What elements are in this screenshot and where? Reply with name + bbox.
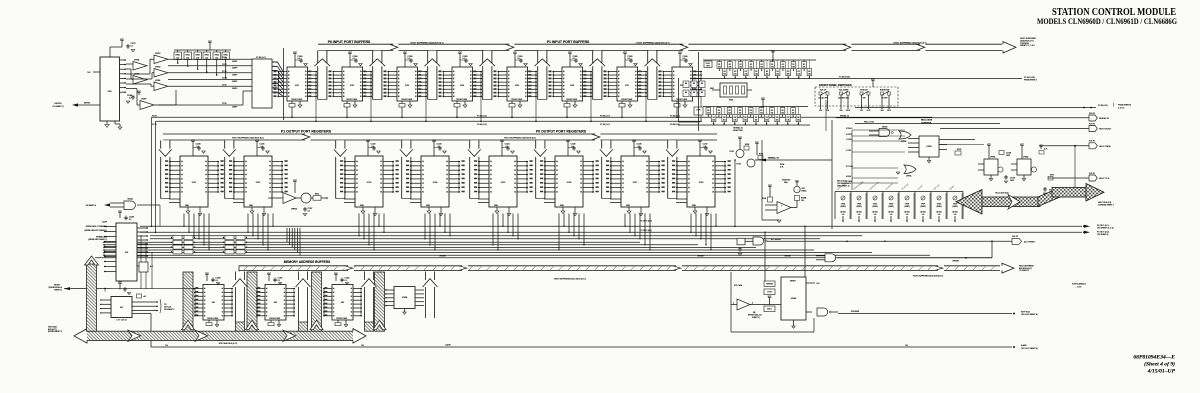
buffer IC U782 input port [404,54,406,57]
connector flag HOST BOOT [1089,126,1097,132]
svg-text:(Sheet 4 of 9): (Sheet 4 of 9) [1144,361,1175,368]
svg-text:P0 INPUT PORT BUFFERS: P0 INPUT PORT BUFFERS [328,40,371,44]
crosshatch arrow right [1086,184,1104,202]
buffer IC U787 input port [679,54,681,57]
cap C1190 [119,213,121,216]
svg-text:HDLC DATA: HDLC DATA [1099,145,1111,148]
bus: P1/P0 OUTPUT PORT REGISTERS data bus [163,134,717,140]
svg-text:U31: U31 [120,307,123,309]
svg-text:0.1: 0.1 [572,146,574,148]
svg-text:100PF: 100PF [232,81,237,83]
wires to flags [940,128,1089,130]
svg-text:U42: U42 [274,302,277,304]
register IC U793 output port [402,140,411,198]
svg-text:TRI DET GND: TRI DET GND [621,99,633,101]
svg-text:0.1: 0.1 [438,146,440,148]
svg-text:1P5: 1P5 [819,110,822,112]
svg-text:U51B4: U51B4 [791,298,796,300]
svg-text:10k: 10k [797,120,800,122]
svg-text:U793: U793 [367,182,372,184]
svg-text:0.1: 0.1 [298,58,300,60]
svg-text:R802: R802 [196,54,200,56]
svg-text:0.1: 0.1 [518,58,520,60]
gate output wtf [817,308,828,316]
svg-text:TRI DET GND: TRI DET GND [566,99,578,101]
svg-text:HOST BUFFERED ADD BUS (0:17): HOST BUFFERED ADD BUS (0:17) [554,278,586,281]
svg-text:SERIAL ID: SERIAL ID [840,115,850,118]
svg-text:CTS4: CTS4 [222,78,227,80]
svg-text:TO/FROM SHEET 2: TO/FROM SHEET 2 [1098,205,1114,207]
svg-text:CONTROL: CONTROL [921,123,932,125]
buffer IC U42 memory address [268,275,270,278]
svg-text:TRI DET GND: TRI DET GND [336,318,348,320]
svg-text:(FROM SHEET 1): (FROM SHEET 1) [48,331,62,333]
svg-text:R794: R794 [759,153,763,155]
resistor R824 [313,196,321,201]
svg-text:ADAPTER: ADAPTER [733,129,743,132]
svg-text:(GRN): (GRN) [888,206,893,208]
svg-text:P.02 P2: P.02 P2 [1012,236,1018,238]
net P0 IN / P1 IN lines [152,116,933,118]
resistor pack array upper [703,59,816,61]
buffer IC U781 input port [349,54,351,57]
bus: HOST BUFFERED DATA BUS (0:7) top [318,44,1002,50]
svg-text:10k: 10k [786,120,789,122]
svg-text:U786A: U786A [402,296,408,299]
net SERIAL ID [755,159,832,161]
LED D62 red [794,186,800,192]
svg-text:P605: P605 [729,100,733,102]
svg-text:TRI DET GND: TRI DET GND [269,318,281,320]
svg-text:P.02 P1: P.02 P1 [1089,173,1095,175]
svg-text:R801: R801 [186,54,190,56]
svg-text:0.1: 0.1 [216,280,218,282]
wire: intermediate out lines [150,235,862,237]
svg-text:(TO U6-70 SHEET 4): (TO U6-70 SHEET 4) [1021,314,1038,316]
svg-text:4, 5 & 6: 4, 5 & 6 [1118,107,1124,109]
svg-text:U782: U782 [350,85,354,87]
svg-text:0.1: 0.1 [353,58,355,60]
connector box (mold switch) [720,83,747,97]
svg-text:U510E: U510E [882,126,888,128]
IC U785 (left latch) [121,41,123,44]
net P2 IN line [855,107,1096,109]
svg-text:U794A: U794A [1023,156,1029,159]
svg-text:10k: 10k [739,66,742,68]
svg-text:10k: 10k [792,112,795,114]
wire A A/W line [150,314,152,348]
svg-text:R824: R824 [315,194,319,196]
svg-text:10PF: 10PF [1006,155,1010,157]
svg-text:1P8: 1P8 [880,110,883,112]
svg-text:R803: R803 [205,54,209,56]
hatched risers left of each buffer IC [183,272,193,331]
cap C1117 [304,207,306,209]
svg-text:3: 3 [733,302,734,304]
svg-text:(TO SHEET 6): (TO SHEET 6) [1097,234,1109,236]
svg-text:FLEPS-49862-O: FLEPS-49862-O [1072,284,1087,286]
svg-text:10k: 10k [766,74,769,76]
svg-text:TRI DET GND: TRI DET GND [401,99,413,101]
svg-text:0.1: 0.1 [278,280,280,282]
gate U796A nand [879,129,890,137]
svg-text:(GRN): (GRN) [840,206,845,208]
svg-text:2-8: 2-8 [842,214,845,216]
gate RESET driver [825,254,836,262]
svg-text:CTS6: CTS6 [222,103,227,105]
bus tap arrow (vertical pipe into top bus) [373,51,382,100]
svg-text:0.1: 0.1 [131,45,133,47]
buffer IC U780 input port [294,54,296,57]
bus tap arrow (vertical pipe into top bus) [318,51,327,100]
svg-text:TO SHEET 3: TO SHEET 3 [1019,270,1029,272]
svg-text:HOST BUFFERED ADD BUS (0:17): HOST BUFFERED ADD BUS (0:17) [913,274,944,277]
svg-text:R8: R8 [701,83,703,85]
svg-text:10k: 10k [781,66,784,68]
svg-text:7 THD.6: 7 THD.6 [846,139,853,141]
svg-text:10k: 10k [760,66,763,68]
net WTF SCK line [838,313,1012,315]
svg-text:N.C.: N.C. [817,283,821,285]
svg-text:10k: 10k [797,74,800,76]
svg-text:GP53: GP53 [291,209,297,211]
svg-text:10k: 10k [776,120,779,122]
svg-text:U30: U30 [125,252,128,254]
svg-text:(GRN): (GRN) [920,206,925,208]
svg-text:100PF: 100PF [232,88,237,90]
svg-text:0.1: 0.1 [308,210,310,212]
transistor Q751 [739,139,741,142]
svg-text:10k: 10k [734,74,737,76]
svg-text:U786C: U786C [155,53,161,55]
svg-text:100PF: 100PF [232,61,237,63]
svg-text:R8: R8 [701,92,703,94]
vertical wire [283,48,285,120]
svg-text:R805: R805 [224,54,228,56]
U30 right pin drops [140,236,142,289]
svg-text:(GRN): (GRN) [936,206,941,208]
svg-text:U791: U791 [192,182,197,184]
svg-text:RESET: RESET [785,255,792,257]
IC U51B [781,277,806,320]
transistor Q752 [756,144,758,147]
svg-text:U783: U783 [405,85,409,87]
P2 input connector box [252,59,272,108]
svg-text:WTF/RES: WTF/RES [851,311,860,313]
svg-text:(FROM U401-G17 SHEET 1): (FROM U401-G17 SHEET 1) [84,230,107,232]
svg-text:0.1: 0.1 [408,58,410,60]
svg-text:LTCH: LTCH [767,291,772,293]
svg-text:1 8 7 14 8 13: 1 8 7 14 8 13 [116,319,126,321]
svg-text:R8: R8 [685,83,687,85]
svg-text:10k: 10k [728,66,731,68]
connector flag HDLC DATA [1089,143,1097,149]
FRONT PANEL SWITCHES dashed box [815,87,898,106]
svg-text:2-8: 2-8 [906,214,909,216]
net P1 IN line [690,78,1022,80]
svg-text:2 PH0.2: 2 PH0.2 [846,128,852,130]
pullup 4.7k [138,295,140,299]
svg-text:4.7k: 4.7k [780,166,783,168]
svg-text:RETND: RETND [84,103,91,105]
svg-text:SHEET 1): SHEET 1) [54,289,62,291]
svg-text:TRI DET GND: TRI DET GND [676,99,688,101]
bus tap arrow (vertical pipe into top bus) [593,51,602,100]
connector flag SERIAL ID [1089,115,1097,121]
IC U31 [119,284,121,287]
svg-text:+4.7: +4.7 [143,296,146,298]
flip-flop latches U793A U794A [988,146,990,149]
svg-text:SERIAL ID: SERIAL ID [733,127,743,130]
svg-text:10k: 10k [765,120,768,122]
crosshatch top band [1052,188,1086,198]
svg-text:R8: R8 [685,92,687,94]
gate ACT RESET small [753,237,764,245]
buffer IC U43 memory address [335,275,337,278]
svg-text:P1 IN (0:23): P1 IN (0:23) [839,77,850,79]
buffer IC U783 input port [459,54,461,57]
svg-text:A A/W: A A/W [1021,344,1027,347]
svg-text:HOST BUFFERED DATA BUS (0:7): HOST BUFFERED DATA BUS (0:7) [232,137,264,140]
svg-text:0.1: 0.1 [573,58,575,60]
net RETND to sheet 1 [72,103,78,106]
svg-text:1P7: 1P7 [860,110,863,112]
svg-text:1P6: 1P6 [839,110,842,112]
vertical bend bundle [286,228,288,242]
svg-text:P.02 P1: P.02 P1 [1089,141,1095,143]
register output drop wires [183,214,185,227]
svg-text:10k: 10k [739,112,742,114]
svg-text:HDLC CLK: HDLC CLK [1099,178,1110,180]
svg-text:MODELS CLN6960D / CLN6961D / C: MODELS CLN6960D / CLN6961D / CLN6686G [1037,16,1177,26]
net RESET long line [95,257,992,259]
svg-text:MEMORY ADDRESS BUFFERS: MEMORY ADDRESS BUFFERS [284,260,330,264]
riser (from sheet) [87,264,97,331]
svg-text:RETND: RETND [55,103,62,105]
svg-text:2-8: 2-8 [890,214,893,216]
gate NOR pair [737,238,745,245]
buffer IC U786 input port [624,54,626,57]
gate U797B or [899,131,911,139]
svg-text:HDLC BUS (0:3): HDLC BUS (0:3) [995,193,1009,195]
svg-text:TRI DET GND: TRI DET GND [346,99,358,101]
svg-text:1 CD5: 1 CD5 [846,150,851,152]
register IC U797 output port [668,140,677,198]
bracket to U117 [160,299,161,313]
svg-text:0.1: 0.1 [129,219,131,221]
svg-text:0.1: 0.1 [463,58,465,60]
svg-text:P1 OUTPUT PORT REGISTERS: P1 OUTPUT PORT REGISTERS [281,129,332,133]
wire bundle from P2 connector to U781 [272,61,278,63]
svg-text:5 THD0: 5 THD0 [846,181,852,183]
crosshatch step diagonal [1038,188,1060,207]
svg-text:RESET: RESET [953,260,960,262]
svg-text:U785: U785 [515,85,519,87]
svg-text:ON SHEET 4: ON SHEET 4 [86,205,96,207]
bus tap arrow (vertical pipe into top bus) [483,51,492,100]
svg-text:(FROM U401-17 SHEET 1): (FROM U401-17 SHEET 1) [86,226,108,228]
svg-text:P0 IN: P0 IN [152,115,157,117]
svg-text:2-8: 2-8 [922,214,925,216]
vertical section divider [698,52,700,131]
svg-text:0.1: 0.1 [628,58,630,60]
svg-text:P2 IN (0:2): P2 IN (0:2) [477,115,487,117]
gate U614A [124,201,135,210]
svg-text:LOCAL SPK: LOCAL SPK [818,97,828,100]
svg-text:10k: 10k [723,120,726,122]
svg-text:1P11: 1P11 [867,110,871,112]
svg-text:0.1: 0.1 [704,146,706,148]
svg-text:68P81094E34—E: 68P81094E34—E [1133,355,1175,361]
svg-text:SHEET 1): SHEET 1) [752,317,760,319]
svg-text:CTS3: CTS3 [222,71,227,73]
transistor Q GP53 [301,193,311,203]
svg-text:P1 IN: P1 IN [152,124,157,126]
svg-text:P1 INPUT PORT BUFFERS: P1 INPUT PORT BUFFERS [547,40,590,44]
svg-text:10k: 10k [733,120,736,122]
op-amp station fail [769,187,771,190]
svg-text:CTS0: CTS0 [222,64,227,66]
svg-text:U793A: U793A [990,156,996,159]
svg-text:(GRN): (GRN) [904,206,909,208]
svg-text:1P9: 1P9 [826,110,829,112]
register IC U791 output port [225,140,234,198]
svg-text:0.1: 0.1 [129,97,131,99]
svg-text:STND-BY: STND-BY [860,90,869,92]
svg-text:10k: 10k [803,66,806,68]
buffer U786F low [140,101,154,110]
svg-text:2-8: 2-8 [858,214,861,216]
svg-text:SERIAL ID: SERIAL ID [768,156,779,159]
svg-text:100PF: 100PF [232,107,237,109]
svg-text:U786A: U786A [134,59,140,62]
svg-text:4/15/01–UP: 4/15/01–UP [1147,369,1176,375]
svg-text:P.02 P1: P.02 P1 [1089,113,1095,115]
resistor pack row top-left [174,49,231,51]
svg-text:(TO SHEETS 4, 5, 6): (TO SHEETS 4, 5, 6) [1097,228,1114,230]
svg-text:A A/W: A A/W [445,343,450,346]
svg-text:10k: 10k [755,74,758,76]
svg-text:10k: 10k [787,74,790,76]
bus D: HOST BUFFERED ADD BUS thin [239,265,1000,267]
bus tap arrow (vertical pipe into top bus) [538,51,547,100]
bus tap arrow (vertical pipe into top bus) [648,51,657,100]
svg-text:U797A: U797A [906,175,912,178]
svg-text:P2 IN (0:2): P2 IN (0:2) [1098,105,1108,107]
svg-text:VOL DOWN: VOL DOWN [839,90,849,92]
bus HDLC BUS (0:3) crosshatched [978,197,1040,207]
svg-text:(GRN): (GRN) [856,206,861,208]
svg-text:10k: 10k [749,112,752,114]
svg-text:R2LD: R2LD [767,308,772,310]
svg-text:0.1: 0.1 [638,146,640,148]
buffer IC U41 memory address [206,275,208,278]
svg-text:HDLC BUS: HDLC BUS [921,120,933,122]
svg-text:N.C.: N.C. [88,72,92,74]
buffer triangles U786 [133,62,147,71]
left control wires + pin labels [852,129,905,131]
svg-text:U798: U798 [699,182,704,184]
svg-text:10k: 10k [712,120,715,122]
svg-text:10k: 10k [776,74,779,76]
svg-text:CTS5: CTS5 [222,84,227,86]
svg-text:U785: U785 [107,91,111,93]
svg-text:INTERCOM: INTERCOM [880,90,890,92]
svg-text:HOST BOOT: HOST BOOT [1099,129,1112,131]
svg-text:TRI DET GND: TRI DET GND [456,99,468,101]
test point connector row [835,191,963,193]
flag ACT RESET [1012,238,1022,244]
svg-text:10k: 10k [717,112,720,114]
svg-text:U786F: U786F [141,99,146,101]
svg-text:4: 4 [752,302,753,304]
svg-text:FRONT PANEL SWITCHES: FRONT PANEL SWITCHES [819,83,852,87]
svg-text:100PF: 100PF [232,68,237,70]
wire: P1 OUT bus line [140,231,1082,233]
svg-text:R8: R8 [693,83,695,85]
svg-text:P0 IN (0:7): P0 IN (0:7) [600,115,610,117]
svg-text:10k: 10k [723,74,726,76]
white pipe arrows right of each buffer IC [235,272,244,323]
svg-text:100PF: 100PF [232,74,237,76]
svg-text:U786: U786 [570,85,574,87]
svg-text:10k: 10k [771,66,774,68]
svg-text:2-8: 2-8 [938,214,941,216]
svg-text:10k: 10k [744,120,747,122]
svg-text:P.02 P1: P.02 P1 [1089,123,1095,125]
gate U797A or [904,165,916,174]
buffer IC U784 input port [514,54,516,57]
svg-text:HOST BUFFERED DATA BUS (0:7): HOST BUFFERED DATA BUS (0:7) [637,41,670,44]
svg-text:0.1: 0.1 [345,280,347,282]
svg-text:TRI DET GND: TRI DET GND [291,99,303,101]
svg-text:P2 IN (0:7): P2 IN (0:7) [256,57,266,59]
svg-text:SHEETS 1, 2 & 4: SHEETS 1, 2 & 4 [1020,45,1035,47]
svg-text:10k: 10k [808,74,811,76]
resistor pack array lower [703,106,808,108]
svg-text:10k: 10k [718,66,721,68]
vertical feeds into box [764,232,766,281]
net HDLC LTCH / SERIAL ID lines [836,117,1089,119]
svg-text:U786E: U786E [155,80,161,82]
svg-text:10k: 10k [755,120,758,122]
svg-text:U43: U43 [341,302,344,304]
svg-text:0.1: 0.1 [197,146,199,148]
svg-text:2-8: 2-8 [954,214,957,216]
svg-text:RESET: RESET [440,255,447,257]
svg-text:WTL 7404: WTL 7404 [734,285,742,287]
svg-text:RESET: RESET [790,280,797,282]
svg-text:P0 IN (0:2): P0 IN (0:2) [477,124,487,126]
crosshatch arrow left [956,190,982,215]
register IC U794 output port [470,140,479,198]
svg-text:(GRN): (GRN) [952,206,957,208]
svg-text:1P12: 1P12 [887,110,891,112]
svg-text:4 PH0: 4 PH0 [846,176,851,178]
wire bundle (buffered lines) [104,241,640,243]
resistor stack pack B [225,236,234,240]
wires U785 to triangles [126,63,133,65]
component A-C box [139,262,148,272]
bus tap arrow (vertical pipe into top bus) [428,51,437,100]
IC U30 [116,223,137,281]
svg-text:U794: U794 [433,182,438,184]
register IC U790 output port [161,140,170,198]
svg-text:10k: 10k [750,66,753,68]
svg-text:10k: 10k [770,112,773,114]
svg-text:(GRN): (GRN) [872,206,877,208]
svg-text:2-8: 2-8 [874,214,877,216]
